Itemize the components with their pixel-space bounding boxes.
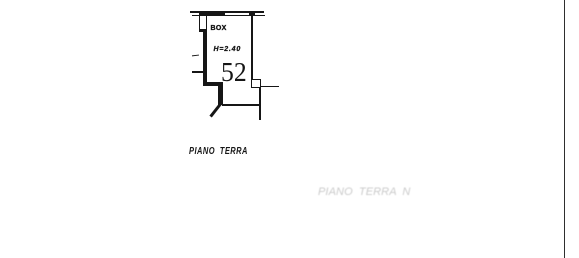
label H=2.40 bbox=[214, 46, 242, 53]
wall: right thin vertical upper bbox=[251, 16, 253, 80]
room number 52 bbox=[221, 57, 247, 88]
door jamb bottom cap bbox=[199, 29, 207, 32]
wall: left thick vertical bbox=[203, 31, 208, 83]
wall: top thick fill left bbox=[199, 11, 225, 16]
wall: bottom horizontal bbox=[222, 104, 261, 106]
label BOX bbox=[211, 25, 227, 32]
wall: top thick fill right pier bbox=[249, 11, 255, 17]
page fold vertical line at right bbox=[564, 0, 566, 258]
caption PIANO TERRA bbox=[189, 146, 248, 157]
dimension tick upper bbox=[192, 55, 199, 57]
pillar square bbox=[251, 79, 260, 88]
faint stamp text PIANO TERRA N bbox=[318, 186, 410, 198]
wall: step horizontal bbox=[203, 82, 223, 86]
door jamb rectangle on left wall bbox=[199, 15, 207, 31]
wall: horizontal stub to right bbox=[260, 86, 279, 88]
dimension tick lower bbox=[192, 71, 203, 73]
wall: top outer line bbox=[190, 11, 264, 13]
wall: top inner line bbox=[192, 15, 265, 17]
wall: step vertical down bbox=[218, 82, 222, 105]
wall: right thin vertical lower bbox=[259, 87, 261, 120]
